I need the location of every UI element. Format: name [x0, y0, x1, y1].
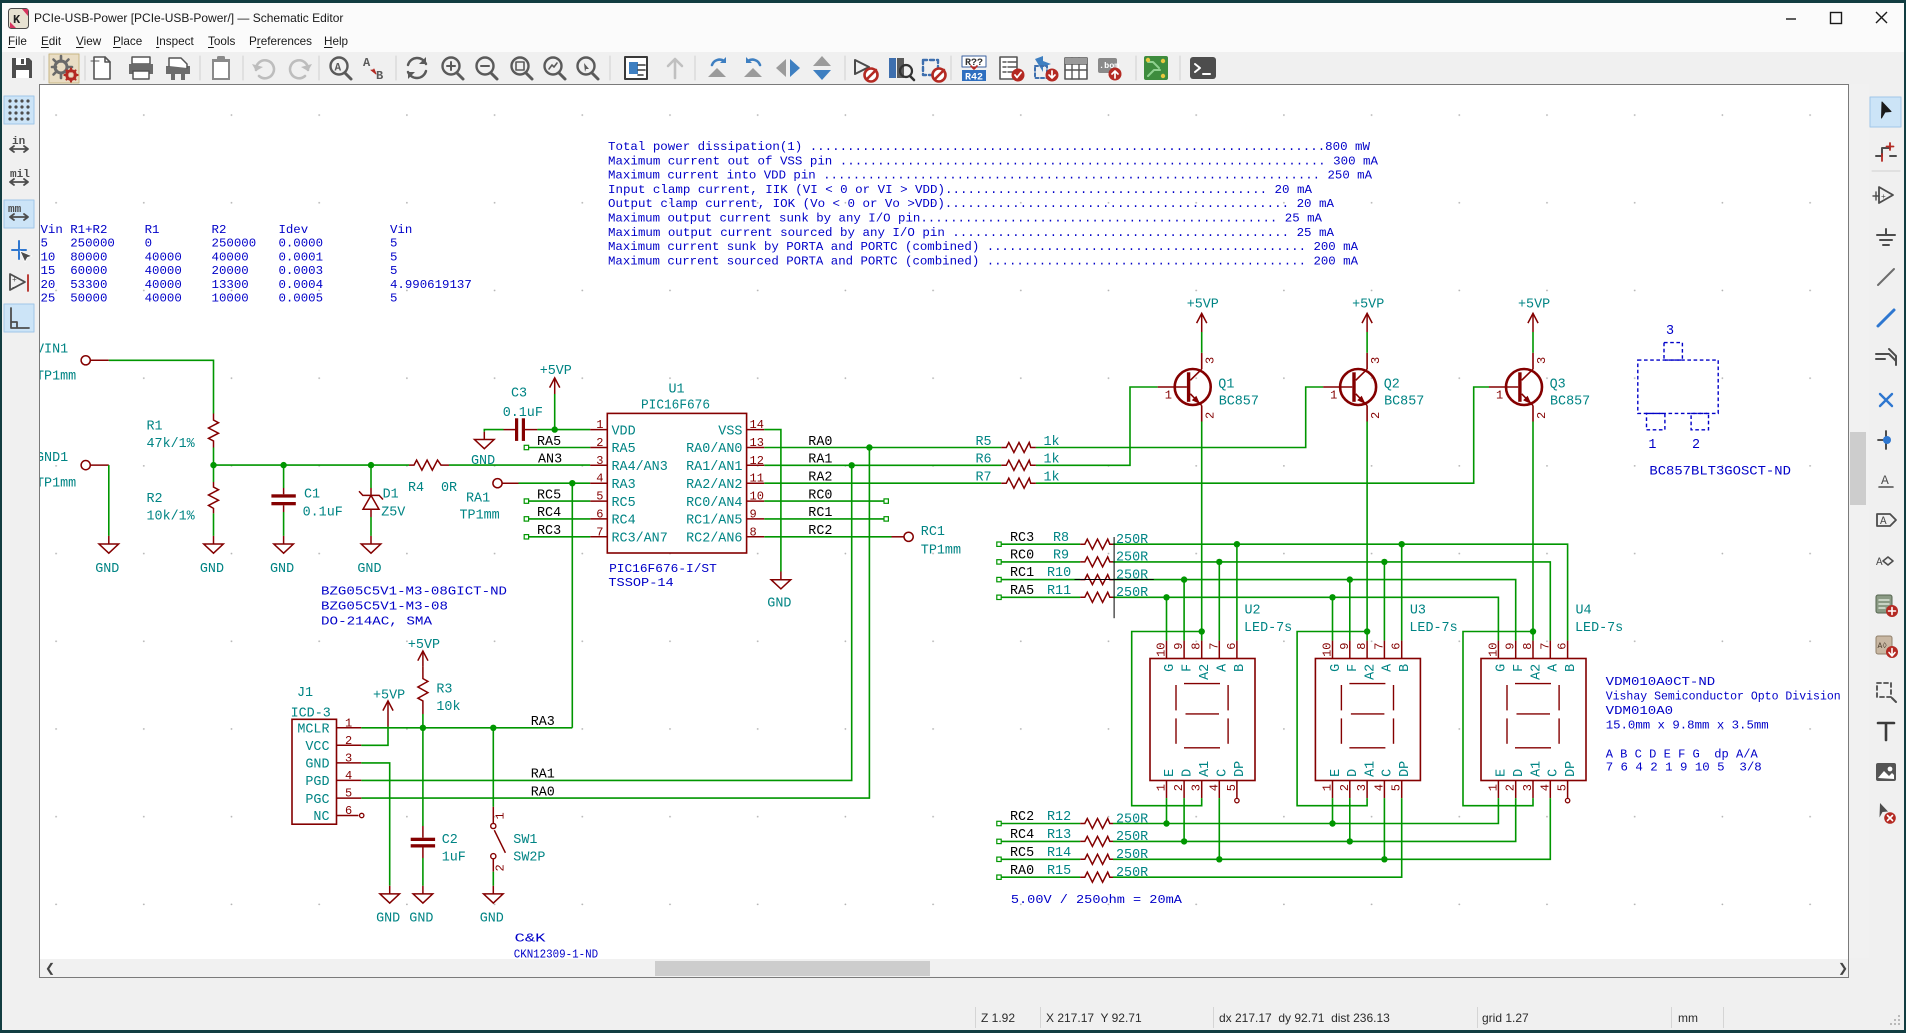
- dangling circle J1 NC pin 6: [360, 813, 364, 817]
- svg-text:1: 1: [494, 812, 508, 819]
- svg-text:A2: A2: [1198, 664, 1213, 680]
- dangling square RC3: [524, 535, 528, 539]
- svg-text:Q2: Q2: [1384, 378, 1400, 393]
- svg-text:5: 5: [596, 490, 603, 504]
- svg-text:C: C: [1216, 769, 1231, 777]
- svg-text:RA1: RA1: [531, 768, 555, 783]
- svg-text:DO-214AC, SMA: DO-214AC, SMA: [321, 615, 433, 629]
- svg-text:RA3: RA3: [531, 715, 555, 730]
- wire row E to displays: [1113, 798, 1498, 823]
- resistor R8: [1053, 531, 1148, 549]
- svg-text:6: 6: [1225, 643, 1239, 650]
- svg-text:D1: D1: [383, 488, 399, 503]
- power symbol +5VP (VCC): [373, 689, 405, 727]
- svg-text:+5VP: +5VP: [1352, 297, 1384, 312]
- text note: electrical characteristics block: [608, 140, 1379, 268]
- svg-text:K: K: [13, 13, 21, 27]
- resistor R7: [976, 471, 1060, 489]
- svg-text:12: 12: [750, 454, 764, 468]
- wire SW1 to ground: [492, 872, 494, 886]
- svg-text:GND: GND: [305, 758, 329, 773]
- svg-text:B: B: [1233, 664, 1248, 672]
- svg-text:RA5: RA5: [612, 442, 636, 457]
- wire drop G to U3 pin10: [1332, 597, 1334, 640]
- bottom bars: [0, 978, 1906, 1006]
- svg-text:RC3/AN7: RC3/AN7: [612, 532, 668, 547]
- svg-text:9: 9: [1338, 643, 1352, 650]
- svg-text:E: E: [1495, 769, 1510, 777]
- svg-text:R12: R12: [1047, 810, 1071, 825]
- svg-text:U4: U4: [1576, 604, 1592, 619]
- IC U1 PIC16F676: [590, 383, 764, 590]
- wire row DP to U3 pin5: [1113, 798, 1402, 877]
- svg-text:GND: GND: [480, 912, 504, 927]
- svg-text:R2: R2: [147, 492, 163, 507]
- svg-text:NC: NC: [313, 810, 329, 825]
- svg-text:8: 8: [1355, 643, 1369, 650]
- svg-text:TP1mm: TP1mm: [921, 544, 961, 559]
- svg-text:RC3: RC3: [1010, 531, 1034, 546]
- wire RA5 stub: [529, 447, 591, 449]
- wire drop A to U2 pin7: [1218, 562, 1220, 641]
- left toolbar: [2, 84, 39, 958]
- svg-text:A◊: A◊: [1878, 642, 1888, 651]
- svg-text:R11: R11: [1047, 584, 1071, 599]
- svg-text:5: 5: [1556, 784, 1570, 791]
- text note: resistor divider table: [41, 223, 472, 306]
- svg-text:A: A: [1381, 663, 1396, 672]
- wire riser E U2: [1166, 798, 1168, 823]
- wire RA3 vertical to J1 row: [571, 483, 573, 728]
- svg-text:GND: GND: [376, 912, 400, 927]
- top toolbar: [0, 52, 1906, 85]
- svg-text:RA0: RA0: [1010, 864, 1034, 879]
- svg-text:A B C D E F G dp A/A: A B C D E F G dp A/A: [1606, 748, 1759, 762]
- svg-text:R7: R7: [976, 471, 992, 486]
- junction MCLR/R3: [420, 725, 426, 731]
- resistor R2: [147, 482, 219, 525]
- wire Q1 collector to U2 A2: [1201, 422, 1203, 641]
- junction at R1/R2: [210, 462, 216, 468]
- wire drop F to U2 pin9: [1183, 580, 1185, 641]
- svg-text:B: B: [376, 69, 383, 83]
- svg-text:0R: 0R: [441, 481, 457, 496]
- svg-text:A1: A1: [1198, 761, 1213, 777]
- wire VCC to +5VP: [361, 727, 388, 746]
- svg-text:5: 5: [345, 787, 352, 801]
- svg-text:6: 6: [1390, 643, 1404, 650]
- svg-text:GND: GND: [270, 562, 294, 577]
- wire RC4 segment row D: [1001, 840, 1080, 842]
- svg-text:C3: C3: [511, 387, 527, 402]
- ground symbol GND (C1): [270, 536, 294, 577]
- svg-text:D: D: [1180, 769, 1195, 777]
- dangling square RA5 row: [997, 595, 1001, 599]
- wire riser C U3: [1383, 798, 1385, 859]
- svg-text:D: D: [1346, 769, 1361, 777]
- svg-text:RC4: RC4: [612, 514, 636, 529]
- svg-text:TP1mm: TP1mm: [40, 370, 76, 385]
- wire drop G to U2 pin10: [1166, 597, 1168, 640]
- svg-text:R42: R42: [965, 73, 983, 84]
- svg-text:C1: C1: [304, 488, 320, 503]
- svg-text:A: A: [335, 63, 342, 75]
- svg-text:25 50000 40000 10000: 25 50000 40000 10000 0.0005 5: [41, 292, 398, 306]
- 7-segment display U3: [1315, 604, 1457, 799]
- wire riser D U2: [1183, 798, 1185, 841]
- svg-text:Maximum current into VDD pin .: Maximum current into VDD pin ...........…: [608, 169, 1373, 183]
- svg-text:4: 4: [1207, 784, 1221, 791]
- svg-text:A: A: [1547, 663, 1562, 672]
- wire RC2 row: [764, 536, 891, 538]
- resistor R14: [1047, 846, 1148, 864]
- svg-text:RC0/AN4: RC0/AN4: [686, 496, 742, 511]
- svg-text:RA2/AN2: RA2/AN2: [686, 478, 742, 493]
- junction RA1: [849, 462, 855, 468]
- svg-text:10 80000 40000 40000: 10 80000 40000 40000 0.0001 5: [41, 250, 398, 264]
- test point RA1: [460, 479, 519, 524]
- svg-text:Z5V: Z5V: [381, 506, 405, 521]
- svg-text:VCC: VCC: [305, 740, 329, 755]
- svg-text:3: 3: [1355, 784, 1369, 791]
- svg-text:RC5: RC5: [612, 496, 636, 511]
- svg-text:C: C: [1547, 769, 1562, 777]
- junction E U3: [1329, 820, 1335, 826]
- wire rail to C1: [283, 465, 285, 488]
- wire RC0 segment row A: [1001, 561, 1080, 563]
- svg-text:A: A: [363, 56, 371, 70]
- junction A U3: [1381, 559, 1387, 565]
- menubar: [0, 30, 1906, 52]
- svg-text:RC0: RC0: [808, 488, 832, 503]
- junction A2 U3: [1364, 628, 1370, 634]
- wire R4 to U1 pin 3: [449, 464, 590, 466]
- dangling square RC3 row: [997, 542, 1001, 546]
- svg-text:−: −: [12, 284, 17, 293]
- svg-text:5.00V / 250ohm = 20mA: 5.00V / 250ohm = 20mA: [1011, 893, 1183, 907]
- svg-text:VSS: VSS: [718, 424, 742, 439]
- resistor R15: [1047, 864, 1148, 882]
- svg-text:250R: 250R: [1116, 848, 1148, 863]
- svg-text:0.1uF: 0.1uF: [303, 506, 343, 521]
- svg-text:RC3: RC3: [537, 524, 561, 539]
- svg-text:RC1: RC1: [1010, 566, 1034, 581]
- svg-text:250R: 250R: [1116, 568, 1148, 583]
- svg-text:RA0/AN0: RA0/AN0: [686, 442, 742, 457]
- junction MCLR/SW1: [490, 725, 496, 731]
- wire RC5 stub: [529, 500, 591, 502]
- svg-text:Vishay Semiconductor Opto Divi: Vishay Semiconductor Opto Division: [1606, 690, 1841, 704]
- svg-text:R6: R6: [976, 453, 992, 468]
- svg-text:10: 10: [1155, 643, 1169, 657]
- ground symbol GND (J1): [376, 886, 400, 927]
- svg-text:SW2P: SW2P: [513, 851, 545, 866]
- junction A U2: [1216, 559, 1222, 565]
- power symbol +5VP (Q3): [1518, 297, 1550, 332]
- wire rail to R2: [213, 465, 215, 482]
- svg-text:RC4: RC4: [1010, 828, 1034, 843]
- power symbol +5VP (Q2): [1352, 297, 1384, 332]
- svg-text:BZG05C5V1-M3-08: BZG05C5V1-M3-08: [321, 600, 448, 614]
- svg-text:1: 1: [1496, 389, 1503, 403]
- svg-text:U2: U2: [1245, 604, 1261, 619]
- svg-text:BC857: BC857: [1219, 395, 1259, 410]
- svg-text:GND: GND: [200, 562, 224, 577]
- wire GND1 down: [108, 465, 110, 536]
- svg-text:A: A: [1880, 516, 1887, 528]
- svg-text:11: 11: [750, 472, 764, 486]
- ground symbol GND (C2): [409, 886, 433, 927]
- svg-text:C: C: [1381, 769, 1396, 777]
- svg-text:R9: R9: [1053, 549, 1069, 564]
- svg-text:DP: DP: [1398, 761, 1413, 777]
- svg-text:PGD: PGD: [305, 775, 329, 790]
- svg-text:Q1: Q1: [1218, 378, 1234, 393]
- wire C1 to ground: [283, 512, 285, 536]
- svg-text:PIC16F676-I/ST: PIC16F676-I/ST: [609, 562, 717, 576]
- wire row B to displays: [1113, 544, 1568, 640]
- svg-text:Output clamp current, IOK (Vo: Output clamp current, IOK (Vo < 0 or Vo …: [608, 197, 1335, 211]
- wire A1-A2 tie U4: [1463, 632, 1533, 806]
- wire RC0 row: [764, 500, 884, 502]
- svg-text:2: 2: [1338, 784, 1352, 791]
- junction at D1: [368, 462, 374, 468]
- svg-text:Maximum output current sourced: Maximum output current sourced by any I/…: [608, 226, 1335, 240]
- svg-text:4: 4: [596, 472, 603, 486]
- svg-text:RC4: RC4: [537, 506, 561, 521]
- svg-text:AN3: AN3: [538, 453, 562, 468]
- resistor R12: [1047, 810, 1148, 828]
- 7-segment display U2: [1150, 604, 1292, 799]
- test point RC1 (TP): [892, 525, 961, 559]
- capacitor C1: [271, 488, 342, 521]
- svg-text:A2: A2: [1363, 664, 1378, 680]
- zener diode D1: [359, 488, 405, 521]
- svg-text:+: +: [1881, 193, 1886, 202]
- svg-text:+5VP: +5VP: [1187, 297, 1219, 312]
- svg-text:2: 2: [1504, 784, 1518, 791]
- svg-text:C2: C2: [442, 833, 458, 848]
- editor crosshair cursor: [1075, 537, 1154, 618]
- wire drop B to U2 pin6: [1236, 544, 1238, 640]
- junction B U2: [1234, 541, 1240, 547]
- text note: display part info: [1606, 675, 1841, 775]
- svg-text:R1: R1: [147, 420, 163, 435]
- wire A1-A2 tie U3: [1297, 632, 1367, 806]
- svg-text:SW1: SW1: [513, 833, 537, 848]
- svg-text:LED-7s: LED-7s: [1409, 621, 1457, 636]
- svg-text:TP1mm: TP1mm: [460, 509, 500, 524]
- svg-text:3: 3: [1190, 784, 1204, 791]
- svg-text:RA0: RA0: [808, 435, 832, 450]
- svg-text:1: 1: [1155, 784, 1169, 791]
- test point GND1: [36, 451, 109, 492]
- svg-text:GND1: GND1: [40, 451, 68, 466]
- wire drop A to U3 pin7: [1383, 562, 1385, 641]
- wire C2 to ground: [422, 858, 424, 886]
- svg-text:R4: R4: [408, 481, 424, 496]
- text note: SW1 part number: [514, 932, 599, 962]
- svg-text:Maximum current sunk by PORTA: Maximum current sunk by PORTA and PORTC …: [608, 240, 1359, 254]
- dangling square RC1: [884, 517, 888, 521]
- svg-text:D: D: [1512, 769, 1527, 777]
- wire RA1 testpoint to U1 pin 4: [519, 482, 591, 484]
- svg-text:RA1: RA1: [808, 453, 832, 468]
- wire VSS to ground: [764, 430, 781, 572]
- power symbol +5VP (Q1): [1187, 297, 1219, 332]
- svg-text:R13: R13: [1047, 828, 1071, 843]
- svg-text:J1: J1: [297, 686, 313, 701]
- resistor R11: [1047, 584, 1148, 602]
- svg-text:Maximum output current sunk by: Maximum output current sunk by any I/O p…: [608, 212, 1323, 226]
- svg-text:VDM010A0CT-ND: VDM010A0CT-ND: [1606, 675, 1716, 689]
- svg-text:R15: R15: [1047, 864, 1071, 879]
- svg-text:15 60000 40000 20000: 15 60000 40000 20000 0.0003 5: [41, 264, 398, 278]
- junction E U2: [1163, 820, 1169, 826]
- junction F U3: [1347, 576, 1353, 582]
- wire row A to displays: [1113, 562, 1550, 641]
- wire Q3 collector to U4 A2: [1532, 422, 1534, 641]
- svg-text:MCLR: MCLR: [297, 723, 329, 738]
- svg-text:6: 6: [1556, 643, 1570, 650]
- connector J1 ICD-3: [291, 686, 362, 825]
- resistor R9: [1053, 549, 1148, 567]
- wire R1 to rail: [213, 448, 215, 466]
- svg-text:+5VP: +5VP: [408, 638, 440, 653]
- dangling square RC4: [524, 517, 528, 521]
- wire RC3 stub: [529, 536, 591, 538]
- svg-text:3: 3: [1204, 357, 1218, 364]
- dangling square RC5 row: [997, 857, 1001, 861]
- wire +5VP to VDD node: [554, 394, 556, 430]
- svg-text:RC2: RC2: [808, 524, 832, 539]
- svg-text:B: B: [1398, 664, 1413, 672]
- dangling circle U4 DP pin 5: [1565, 798, 1569, 802]
- svg-text:9: 9: [750, 507, 757, 521]
- svg-text:Input clamp current, IIK (VI <: Input clamp current, IIK (VI < 0 or VI >…: [608, 183, 1313, 197]
- svg-text:DP: DP: [1564, 761, 1579, 777]
- ground symbol GND (R2): [200, 536, 224, 577]
- svg-text:7: 7: [1207, 643, 1221, 650]
- svg-text:TP1mm: TP1mm: [40, 477, 76, 492]
- svg-text:GND: GND: [409, 912, 433, 927]
- svg-text:250R: 250R: [1116, 830, 1148, 845]
- resistor R4: [408, 460, 457, 496]
- wire VIN1 to R1: [109, 360, 214, 413]
- svg-text:E: E: [1329, 769, 1344, 777]
- svg-text:C&K: C&K: [515, 932, 547, 946]
- svg-text:1: 1: [1165, 389, 1172, 403]
- svg-text:GND: GND: [767, 597, 791, 612]
- svg-text:10: 10: [750, 490, 764, 504]
- svg-text:6: 6: [345, 804, 352, 818]
- wire riser D U3: [1349, 798, 1351, 841]
- svg-text:G: G: [1163, 664, 1178, 672]
- junction G U2: [1163, 594, 1169, 600]
- svg-text:RA3: RA3: [612, 478, 636, 493]
- wire R6 to Q1 base: [1036, 387, 1158, 465]
- ground symbol GND (VSS): [767, 572, 791, 612]
- svg-text:RC1/AN5: RC1/AN5: [686, 514, 742, 529]
- svg-text:A1: A1: [1529, 761, 1544, 777]
- svg-text:F: F: [1346, 664, 1361, 672]
- capacitor C3: [503, 387, 543, 441]
- svg-text:1uF: 1uF: [442, 851, 466, 866]
- wire R7 to Q3 base: [1036, 387, 1489, 483]
- svg-text:5 250000 0 250000: 5 250000 0 250000 0.0000 5: [41, 237, 398, 251]
- svg-text:10k: 10k: [436, 700, 460, 715]
- wire R3 to MCLR row: [422, 714, 424, 728]
- wire C3 left to ground: [484, 430, 503, 432]
- wire row F to displays: [1113, 580, 1516, 641]
- wire RA1 vertical to J1 PGD: [361, 465, 851, 780]
- junction A2 U2: [1199, 628, 1205, 634]
- svg-text:4: 4: [1538, 784, 1552, 791]
- resistor R3: [418, 667, 461, 715]
- svg-text:BC857BLT3GOSCT-ND: BC857BLT3GOSCT-ND: [1649, 464, 1791, 479]
- svg-text:5: 5: [1225, 784, 1239, 791]
- svg-text:DP: DP: [1233, 761, 1248, 777]
- svg-text:5: 5: [1390, 784, 1404, 791]
- svg-text:7: 7: [596, 525, 603, 539]
- svg-text:9: 9: [1504, 643, 1518, 650]
- svg-text:6: 6: [596, 507, 603, 521]
- wire RA5 segment row G: [1001, 596, 1080, 598]
- wire row G to displays: [1113, 597, 1498, 640]
- svg-text:PIC16F676: PIC16F676: [641, 399, 710, 414]
- wire SW1 top: [492, 728, 494, 807]
- wire RA2 row: [764, 482, 1001, 484]
- svg-text:RA1: RA1: [466, 492, 490, 507]
- svg-text:1: 1: [1330, 389, 1337, 403]
- svg-text:TSSOP-14: TSSOP-14: [608, 576, 673, 590]
- svg-text:RA5: RA5: [537, 435, 561, 450]
- svg-text:250R: 250R: [1116, 551, 1148, 566]
- titlebar: [0, 3, 1906, 30]
- svg-text:2: 2: [1172, 784, 1186, 791]
- dangling square RC0: [884, 499, 888, 503]
- svg-text:250R: 250R: [1116, 812, 1148, 827]
- svg-text:F: F: [1512, 664, 1527, 672]
- svg-text:3: 3: [1666, 324, 1674, 339]
- svg-text:Maximum current out of VSS pin: Maximum current out of VSS pin .........…: [608, 154, 1379, 168]
- svg-text:R8: R8: [1053, 531, 1069, 546]
- svg-text:RC5: RC5: [1010, 846, 1034, 861]
- wire RC2 segment row E: [1001, 823, 1080, 825]
- wire RC5 segment row C: [1001, 858, 1080, 860]
- wire drop B to U3 pin6: [1401, 544, 1403, 640]
- svg-text:R14: R14: [1047, 846, 1071, 861]
- svg-text:4: 4: [345, 769, 352, 783]
- svg-text:A: A: [1881, 473, 1889, 488]
- wire R2 to ground: [213, 513, 215, 536]
- svg-text:VIN1: VIN1: [40, 343, 68, 358]
- dangling square RA5: [524, 445, 528, 449]
- svg-text:250R: 250R: [1116, 586, 1148, 601]
- wire C3 right to U1 VDD: [537, 429, 590, 431]
- svg-text:47k/1%: 47k/1%: [147, 437, 196, 452]
- svg-text:A2: A2: [1529, 664, 1544, 680]
- svg-text:2: 2: [596, 436, 603, 450]
- svg-text:3: 3: [596, 454, 603, 468]
- dangling square RA0 row: [997, 875, 1001, 879]
- svg-text:1: 1: [1648, 438, 1656, 453]
- svg-text:F: F: [1180, 664, 1195, 672]
- svg-text:A: A: [1876, 557, 1883, 569]
- svg-text:7 6 4 2 1 9 10 5 3/8: 7 6 4 2 1 9 10 5 3/8: [1606, 761, 1762, 775]
- wire RC1 segment row F: [1001, 579, 1080, 581]
- junction G U3: [1329, 594, 1335, 600]
